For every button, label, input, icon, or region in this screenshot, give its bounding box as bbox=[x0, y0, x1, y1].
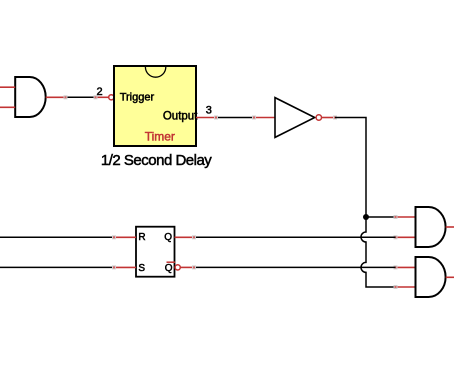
node handle at 194,267.4 bbox=[192, 265, 196, 269]
node handle at 335,117.5 bbox=[333, 116, 337, 120]
wire red stub G3 input B bbox=[396, 286, 416, 288]
svg-text:R: R bbox=[138, 232, 145, 243]
wire G1 input A bbox=[0, 86, 15, 88]
wire G2 output bbox=[446, 226, 454, 228]
pin circle Qbar bbox=[175, 265, 180, 270]
wire Qbar output black to G3 bbox=[194, 266, 396, 268]
node handle at 254,117.5 bbox=[252, 116, 256, 120]
node handle at 395.5,237.3 bbox=[394, 235, 398, 239]
inverter U2 bbox=[275, 98, 315, 138]
junction dot bbox=[363, 214, 369, 220]
wire R input red bbox=[114, 236, 136, 238]
AND gate G3 bbox=[416, 257, 446, 297]
svg-text:Q: Q bbox=[165, 263, 173, 274]
node handle at 395.5,217 bbox=[394, 215, 398, 219]
svg-text:Q: Q bbox=[164, 232, 172, 243]
wire Q output black to G2 bbox=[194, 236, 396, 238]
svg-text:2: 2 bbox=[96, 86, 102, 98]
wire S input black bbox=[0, 266, 114, 268]
latch U3 (SR latch) bbox=[136, 227, 175, 277]
wire Q output red bbox=[175, 236, 195, 238]
wire Qbar output red bbox=[180, 266, 194, 268]
wire Output red segment bbox=[196, 117, 216, 119]
svg-text:1/2 Second Delay: 1/2 Second Delay bbox=[101, 152, 212, 169]
pin label Qbar bbox=[165, 262, 175, 274]
wire net3 black segment bbox=[216, 117, 254, 119]
wire net2 black segment bbox=[66, 96, 96, 98]
wire red stub G3 input A bbox=[396, 266, 416, 268]
wire red stub G2 input B bbox=[396, 236, 416, 238]
AND gate G1 bbox=[15, 77, 45, 117]
wire junction to G2 input black bbox=[366, 216, 396, 218]
wire red segment to Trigger pin bbox=[96, 96, 110, 98]
wire G1 output red segment bbox=[46, 96, 66, 98]
wire to top corner and vertical run with hops bbox=[335, 118, 396, 288]
node handle at 95.5,97.3 bbox=[94, 95, 98, 99]
wire inverter out red segment bbox=[322, 117, 336, 119]
wire G3 output bbox=[446, 276, 454, 278]
wire G1 input B bbox=[0, 106, 15, 108]
wire R input black bbox=[0, 236, 114, 238]
AND gate G2 bbox=[416, 207, 446, 247]
node handle at 395.5,287 bbox=[394, 285, 398, 289]
node handle at 114,267.4 bbox=[112, 265, 116, 269]
node handle at 395.5,267.4 bbox=[394, 265, 398, 269]
svg-text:S: S bbox=[138, 263, 145, 274]
svg-text:3: 3 bbox=[206, 104, 212, 116]
svg-text:Output: Output bbox=[163, 110, 198, 122]
pin circle inverter output bbox=[316, 115, 321, 120]
wire S input red bbox=[114, 266, 136, 268]
timer U1 (1/2 Second Delay block) bbox=[114, 66, 196, 146]
node handle at 114,237.3 bbox=[112, 235, 116, 239]
pin circle Trigger bbox=[109, 95, 114, 100]
wire red stub G2 input A bbox=[396, 216, 416, 218]
wire red segment to inverter bbox=[254, 117, 275, 119]
svg-text:Trigger: Trigger bbox=[120, 92, 155, 104]
node handle at 65.5,97.3 bbox=[64, 95, 68, 99]
svg-text:Timer: Timer bbox=[145, 129, 175, 143]
node handle at 194,237.3 bbox=[192, 235, 196, 239]
node handle at 216,117.5 bbox=[214, 116, 218, 120]
